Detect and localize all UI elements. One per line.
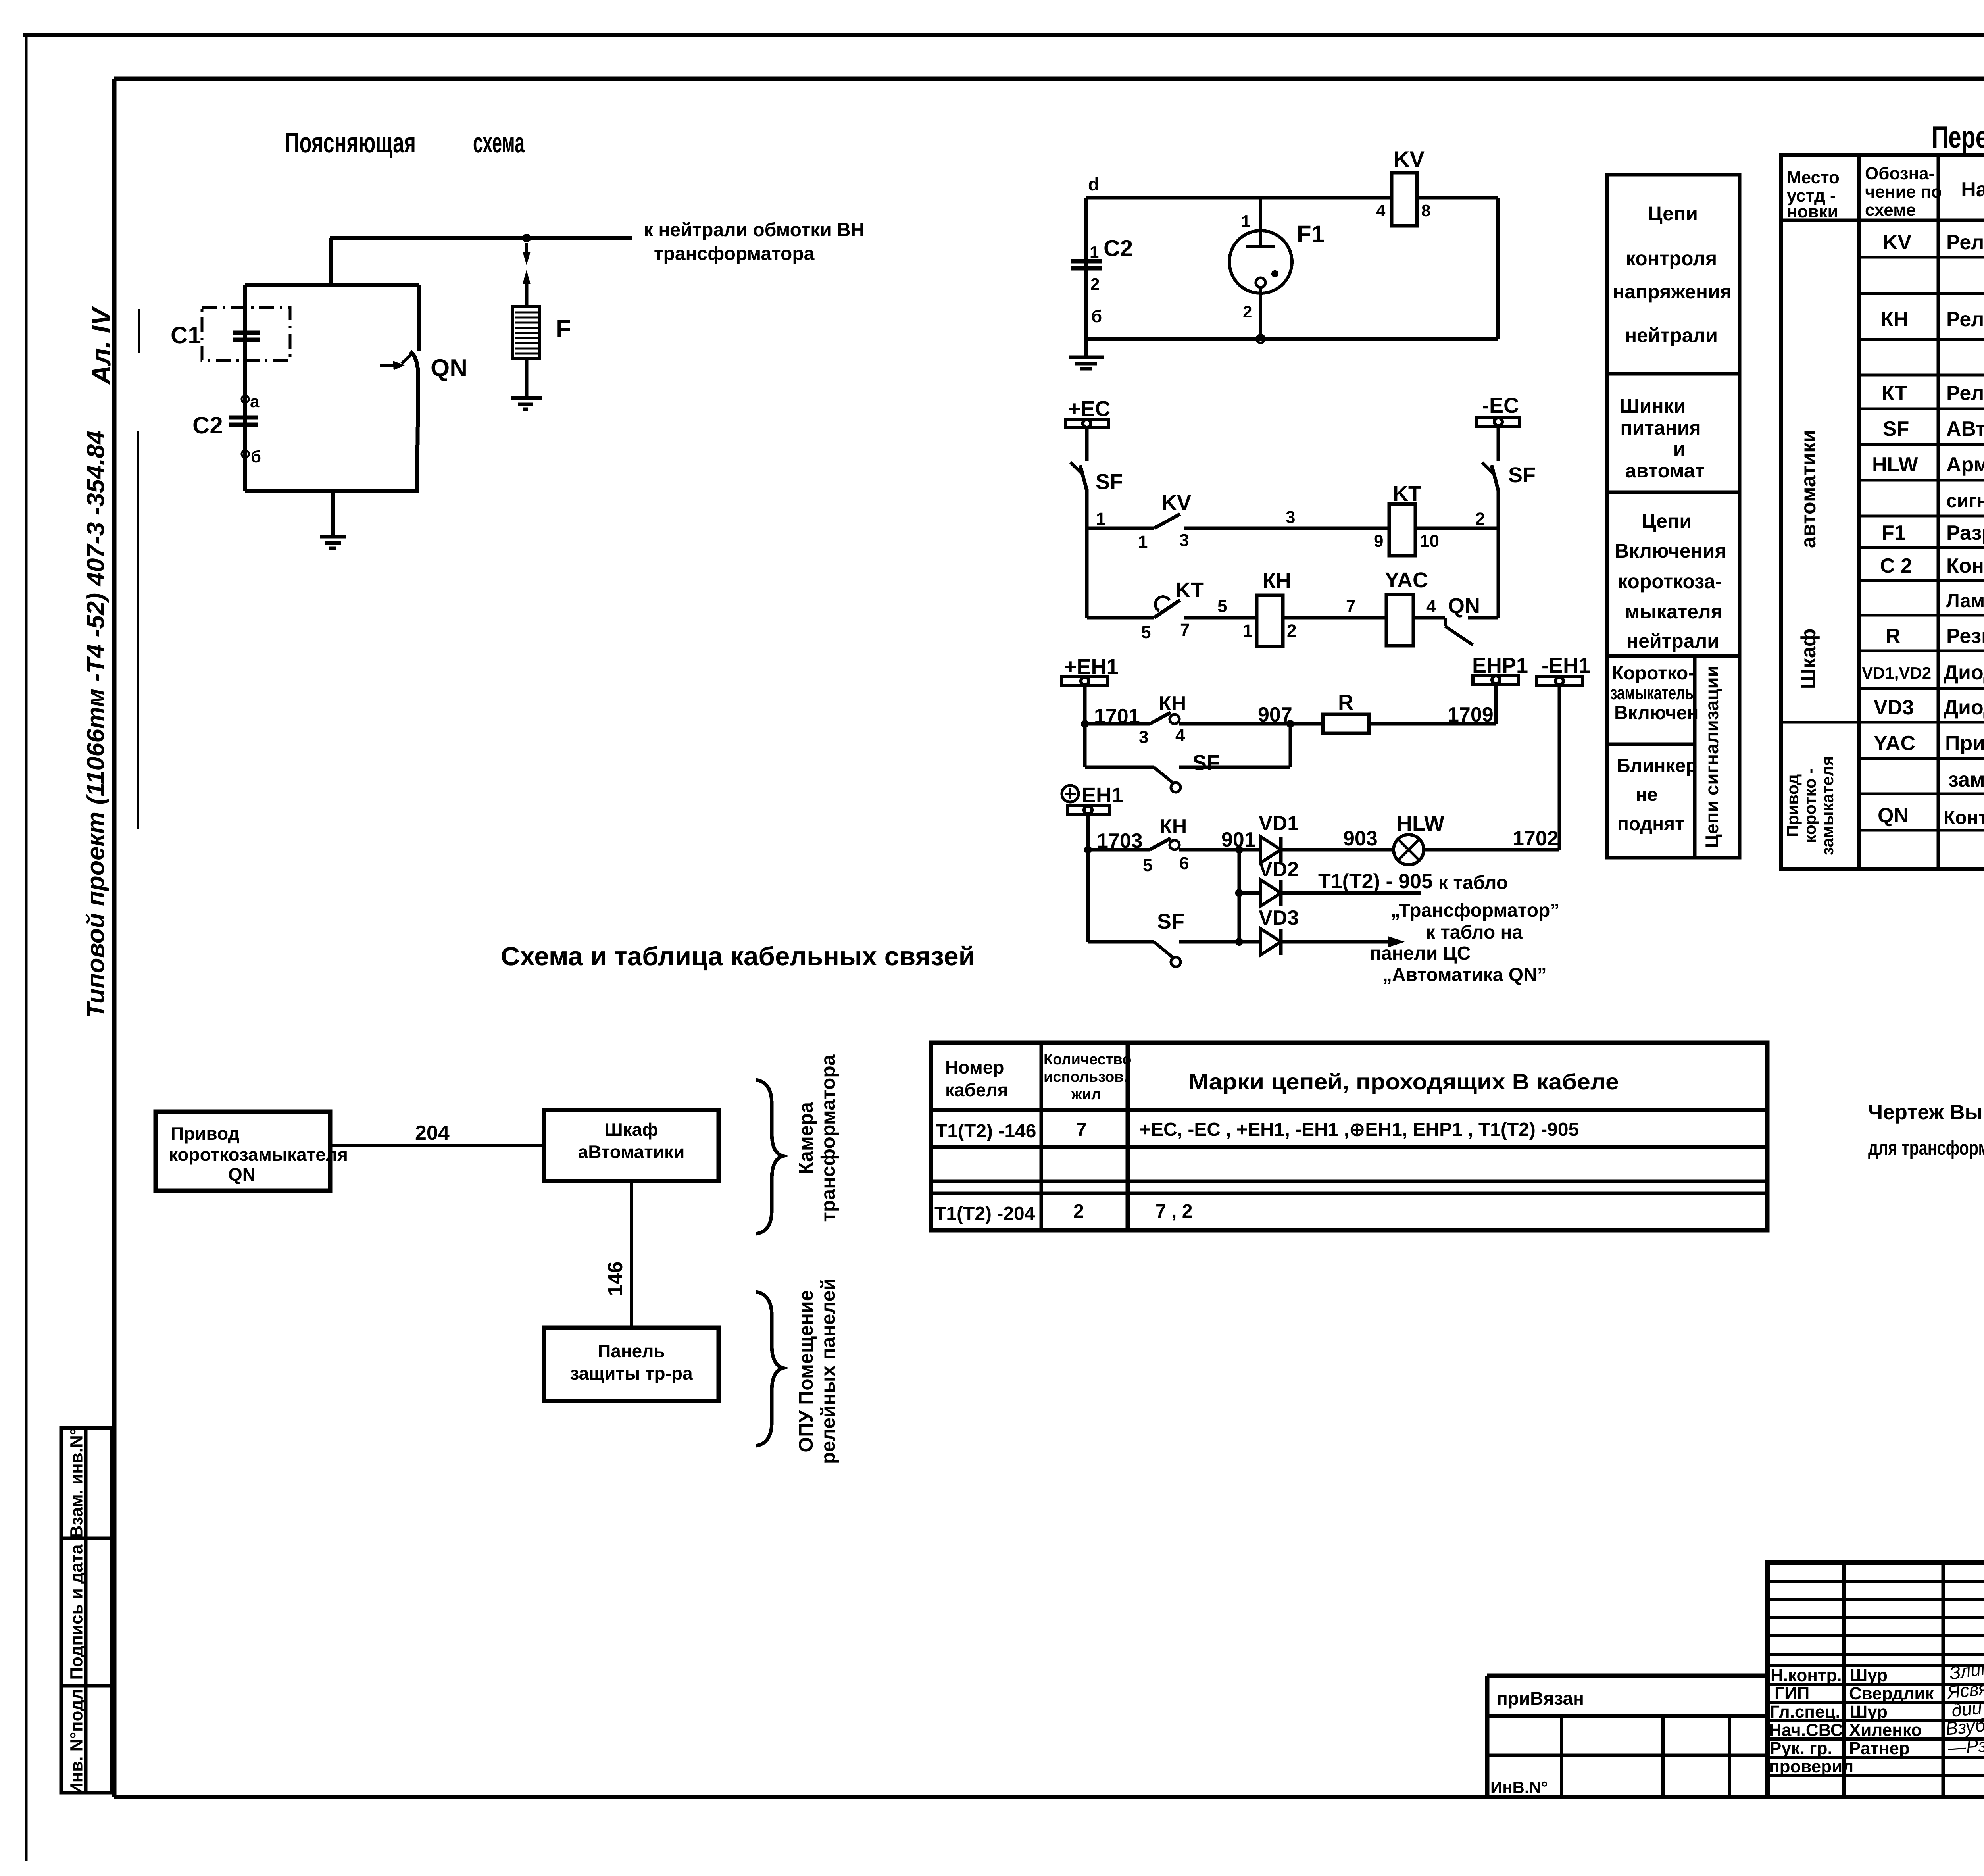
svg-text:автомат: автомат [1625,460,1705,482]
svg-text:а: а [250,392,260,411]
svg-text:Взам. инв.N°: Взам. инв.N° [67,1428,87,1538]
svg-text:контроля: контроля [1626,247,1717,269]
F1 bottom electrode [1256,278,1265,287]
switch QN blade [410,352,418,491]
svg-text:Типовой проект (11066тм -Т4: Типовой проект (11066тм -Т4 -52) 407-3 -… [82,431,110,1018]
capacitor C2 (explanatory) [229,418,258,425]
svg-text:QN: QN [431,354,467,382]
contact KT (time delayed) [1154,600,1180,618]
svg-text:к табло на: к табло на [1426,922,1523,943]
svg-text:1: 1 [1138,532,1148,552]
svg-text:поднят: поднят [1617,814,1684,835]
svg-text:-EC: -EC [1482,394,1519,418]
contact QN signal [1444,618,1447,626]
svg-text:„Автоматика QN”: „Автоматика QN” [1382,964,1547,985]
svg-text:Диод кремниевой: Диод кремниевой [1944,661,1984,684]
svg-text:903: 903 [1343,827,1378,850]
svg-text:R: R [1886,625,1901,648]
svg-text:7: 7 [1180,620,1190,640]
relay coil KH [1257,595,1283,646]
svg-text:4: 4 [1426,596,1436,616]
svg-text:Конденсатор: Конденсатор [1946,554,1984,577]
svg-text:Ал. IV: Ал. IV [86,306,116,385]
svg-text:Инв. N°подл.: Инв. N°подл. [67,1684,87,1795]
box Блинкер не поднят [1617,755,1698,835]
svg-text:VD3: VD3 [1259,906,1299,929]
svg-text:YAC: YAC [1874,732,1915,755]
svg-text:автоматики: автоматики [1797,430,1820,548]
svg-text:КН: КН [1159,692,1186,715]
box Шинки питания и автомат [1620,395,1705,482]
wire up to EHP1 [1494,686,1498,724]
label column frame [1607,175,1740,858]
svg-text:VD2: VD2 [1259,858,1299,881]
wire row3 middle [1179,722,1323,726]
svg-text:КТ: КТ [1882,382,1907,405]
arrester F1 body circle [1229,231,1292,293]
cable row T1(T2)-146 [936,1119,1579,1142]
svg-text:замыкателя: замыкателя [1948,768,1984,791]
box Цепи контроля напряжения нейтрали [1613,202,1732,346]
svg-text:Цепи: Цепи [1648,202,1698,225]
wire from -EC [1497,426,1500,461]
svg-text:HLW: HLW [1872,453,1918,476]
relay coil KV [1392,173,1417,226]
title block outline [1768,1563,1984,1797]
svg-text:C2: C2 [1104,235,1133,261]
cable table headers [945,1051,1131,1103]
svg-text:1: 1 [1243,621,1252,641]
signature table verticals [1842,1563,1846,1797]
border outer left line [25,35,28,1861]
node 901 [1235,846,1243,854]
svg-text:SF: SF [1508,463,1536,487]
wire row2 to YAC [1283,616,1386,620]
signature table row lines [1768,1581,1984,1776]
node VD2 branch [1235,889,1243,897]
svg-text:YAC: YAC [1385,568,1428,592]
wire loop right [1496,198,1500,339]
wire loop bottom [1086,337,1498,341]
diode VD1 [1261,837,1281,863]
main frame bottom [114,1795,1984,1799]
svg-text:7 , 2: 7 , 2 [1155,1201,1192,1222]
svg-text:аВтоматики: аВтоматики [578,1141,685,1162]
svg-text:d: d [1088,174,1099,194]
svg-text:Схема и таблица кабельны: Схема и таблица кабельных связей [501,941,975,971]
svg-text:F1: F1 [1882,521,1906,545]
svg-text:релейных панелей: релейных панелей [817,1278,839,1464]
vertical from node 901 down [1238,850,1241,942]
wire loop bottom [245,489,419,493]
svg-text:+EC: +EC [1068,397,1111,421]
svg-text:7: 7 [1346,596,1355,616]
svg-text:5: 5 [1141,623,1151,642]
switch QN (explanatory): upper stub [417,285,421,351]
bus ⊕EH1 [1062,785,1079,802]
svg-text:Шинки: Шинки [1620,395,1686,417]
svg-text:Реле указательное: Реле указательное [1946,308,1984,331]
wire to transformer neutral [330,236,632,240]
svg-text:ИнВ.N°: ИнВ.N° [1490,1778,1548,1797]
table header texts [1787,164,1942,221]
svg-text:Т1(Т2) -146: Т1(Т2) -146 [936,1121,1036,1142]
svg-text:-EH1: -EH1 [1542,654,1590,677]
svg-text:Номер: Номер [945,1057,1004,1077]
wire row1 middle [1184,527,1392,530]
svg-text:1702: 1702 [1513,827,1559,850]
svg-text:Гл.спец.: Гл.спец. [1770,1702,1840,1722]
wire from +EH1 [1083,686,1087,767]
wire bypass right (row4) [1179,940,1239,944]
junction 907 [1286,720,1294,728]
svg-text:1709: 1709 [1448,703,1494,726]
wire row2 left corner [1087,616,1154,620]
svg-text:C1: C1 [171,322,201,348]
F1 polarity dot [1271,270,1278,277]
lamp HLW [1394,835,1424,865]
svg-text:—Рз: —Рз [1947,1735,1984,1758]
wire from SF right down [1497,489,1500,618]
svg-text:Нач.СВС: Нач.СВС [1769,1720,1843,1740]
svg-text:коротко -: коротко - [1801,768,1819,843]
contact SF aux (row3) [1154,767,1173,783]
wire up to -EH1 [1558,686,1561,850]
svg-text:мыкателя: мыкателя [1625,600,1723,623]
svg-text:SF: SF [1883,418,1909,441]
F1 top electrode [1259,231,1262,246]
signature table texts [1769,1666,1934,1776]
svg-text:Привод коротко -: Привод коротко - [1945,732,1984,755]
wire loop top [1086,196,1498,200]
svg-text:Диод кремниевой: Диод кремниевой [1944,696,1984,719]
svg-text:короткоза-: короткоза- [1618,570,1722,593]
svg-text:к нейтрали обмотки ВН: к нейтрали обмотки ВН [644,219,864,241]
arrester F lower stem [525,359,529,398]
switch QN actuating arrow [380,364,398,367]
svg-text:SF: SF [1157,910,1184,933]
svg-text:замыкатель: замыкатель [1610,683,1694,704]
underline of designation [137,431,139,829]
left extension of title block [1487,1676,1768,1797]
svg-text:VD3: VD3 [1874,696,1914,719]
drive coil YAC [1386,595,1413,646]
svg-text:КН: КН [1159,815,1187,838]
signatures (script) [1945,1655,1984,1758]
wire row1 right [1415,527,1498,530]
svg-text:схеме: схеме [1865,200,1916,220]
wire row2 to KH [1184,616,1257,620]
brace Камера трансформатора [756,1080,783,1234]
svg-text:Лампа сигнальная: Лампа сигнальная [1946,591,1984,612]
svg-text:SF: SF [1096,470,1123,494]
wire row2 to QN [1413,616,1445,620]
svg-text:Привод: Привод [171,1123,240,1144]
svg-text:3: 3 [1179,531,1189,550]
svg-text:VD1: VD1 [1259,812,1299,835]
breaker SF right [1482,462,1493,473]
svg-text:2: 2 [1073,1201,1084,1222]
svg-text:2: 2 [1287,621,1296,641]
svg-text:F: F [556,314,571,343]
ground of KV loop [1069,339,1104,369]
svg-text:Разрядник: Разрядник [1946,521,1984,545]
svg-text:проверил: проверил [1769,1757,1853,1776]
svg-text:Марки цепей, проходящих В ка: Марки цепей, проходящих В кабеле [1188,1069,1619,1094]
svg-text:7: 7 [1076,1119,1087,1140]
svg-text:Включен: Включен [1614,702,1698,723]
wire row4 right [1424,848,1559,852]
svg-text:КН: КН [1263,569,1291,593]
wire row3 left [1085,722,1150,726]
svg-text:5: 5 [1143,856,1152,875]
svg-text:для трансформатора Т2 с уч: для трансформатора Т2 с учетом изменений… [1868,1137,1984,1160]
capacitor C1 [233,333,260,340]
block Привод короткозамыкателя QN [156,1112,330,1191]
wire from ⊕EH1 [1086,814,1090,942]
svg-text:Цепи сигнализации: Цепи сигнализации [1701,666,1722,848]
svg-text:чение по: чение по [1865,182,1942,202]
svg-text:С 2: С 2 [1880,554,1912,577]
svg-text:КН: КН [1881,308,1908,331]
block Панель защиты тр-ра [544,1328,719,1401]
table rows [1862,231,1984,829]
svg-text:HLW: HLW [1397,812,1444,835]
svg-text:SF: SF [1192,751,1220,775]
svg-text:Количество: Количество [1044,1051,1131,1068]
diode VD2 [1261,880,1281,906]
node junction on neutral wire [522,234,531,242]
wire from SF left down [1085,489,1089,618]
svg-text:2: 2 [1243,302,1252,321]
svg-text:4: 4 [1376,201,1386,220]
svg-text:Шур: Шур [1850,1702,1888,1722]
svg-text:Цепи: Цепи [1642,510,1692,532]
main frame top [114,77,1984,81]
svg-text:Подпись и дата: Подпись и дата [67,1544,87,1680]
left margin stamp boxes [61,1428,112,1793]
contact KH 5-6 [1150,838,1171,850]
svg-text:б: б [1091,307,1102,326]
svg-text:3: 3 [1139,727,1148,747]
svg-text:Шкаф: Шкаф [1797,629,1820,689]
wire row1 left [1087,527,1154,530]
svg-text:ОПУ Помещение: ОПУ Помещение [795,1290,817,1452]
svg-text:6: 6 [1179,854,1189,873]
note text [1868,1101,1984,1160]
svg-text:к табло: к табло [1438,872,1508,893]
svg-text:EH1: EH1 [1082,783,1123,807]
svg-text:короткозамыкателя: короткозамыкателя [169,1144,348,1165]
wire row4 to lamp [1281,848,1394,852]
junction 1701 [1081,720,1089,728]
svg-text:Привод: Привод [1783,774,1802,837]
SF bypass of row 4 [1088,940,1154,944]
svg-text:QN: QN [228,1164,256,1185]
svg-text:KT: KT [1175,578,1204,602]
node VD3 branch [1235,938,1243,946]
svg-text:Реле Времени: Реле Времени [1946,382,1984,405]
wire to VD2 [1239,891,1261,895]
svg-text:трансформатора: трансформатора [654,243,815,264]
svg-text:ГИП: ГИП [1774,1684,1809,1703]
capacitor C1 dashed enclosure [202,308,290,360]
svg-text:„Трансформатор”: „Трансформатор” [1391,900,1559,921]
svg-text:Перечень: Перечень [1932,119,1984,154]
svg-text:АВтомат: АВтомат [1946,418,1984,441]
svg-text:трансформатора: трансформатора [817,1054,839,1222]
svg-text:и: и [1673,438,1686,460]
wire loop top [245,283,419,287]
table grid [1781,155,1984,869]
svg-text:Наименование: Наименование [1961,178,1984,201]
disconnect arrows at neutral junction [525,243,528,254]
svg-text:QN: QN [1878,804,1909,827]
resistor R [1323,714,1369,733]
ground of explanatory loop [320,491,346,548]
svg-text:напряжения: напряжения [1613,281,1732,303]
svg-text:VD1,VD2: VD1,VD2 [1862,664,1931,682]
svg-text:10: 10 [1420,531,1439,551]
breaker SF left [1071,462,1082,473]
svg-text:нейтрали: нейтрали [1625,324,1718,346]
brace ОПУ помещение релейных панелей [756,1292,783,1446]
cable table grid [931,1043,1767,1230]
ground of arrester F [511,398,542,409]
svg-text:использов.: использов. [1044,1069,1128,1085]
svg-text:Обозна-: Обозна- [1865,164,1934,183]
arrester F1 upper stem [1259,198,1262,231]
wire to VD3 [1239,940,1261,944]
svg-text:Панель: Панель [598,1341,665,1361]
svg-text:Контакт сигнальный: Контакт сигнальный [1944,807,1984,828]
svg-text:защиты тр-ра: защиты тр-ра [570,1363,693,1383]
svg-text:3: 3 [1286,508,1295,527]
main frame left [112,79,117,1797]
relay coil KT [1389,504,1415,556]
svg-text:Арматура: Арматура [1946,453,1984,476]
svg-text:нейтрали: нейтрали [1626,630,1719,652]
svg-text:Т1(Т2) -204: Т1(Т2) -204 [934,1203,1035,1224]
svg-text:Хиленко: Хиленко [1849,1720,1922,1740]
svg-text:жил: жил [1071,1086,1101,1103]
wire from +EC [1085,428,1089,461]
svg-text:QN: QN [1448,594,1480,618]
svg-text:8: 8 [1421,201,1430,220]
svg-text:T1(T2) - 905: T1(T2) - 905 [1318,870,1433,893]
svg-text:б: б [251,447,261,466]
svg-text:146: 146 [604,1262,627,1296]
svg-text:9: 9 [1374,531,1383,551]
svg-text:панели ЦС: панели ЦС [1370,943,1471,964]
contact KV [1154,514,1180,528]
svg-text:Свердлик: Свердлик [1849,1684,1934,1703]
svg-text:кабеля: кабеля [945,1079,1008,1100]
node б [242,450,249,458]
cable 146 wire [630,1181,633,1328]
svg-text:KT: KT [1393,482,1421,506]
node of F1 on bottom wire [1257,335,1265,343]
svg-text:Чертеж Выполнен для трансфо: Чертеж Выполнен для трансформатора Т1 и … [1868,1101,1984,1124]
SF bypass of row 3 [1085,766,1154,769]
svg-text:1: 1 [1241,212,1250,231]
svg-text:KV: KV [1394,146,1425,171]
block Шкаф автоматики [544,1110,719,1181]
wire from VD3 with arrow [1281,940,1393,944]
svg-text:Место: Место [1787,168,1840,187]
svg-text:F1: F1 [1297,221,1325,247]
svg-text:KV: KV [1883,231,1912,254]
box Короткозамыкатель включен [1610,663,1698,723]
svg-text:R: R [1338,691,1353,714]
svg-text:приВязан: приВязан [1497,1688,1584,1709]
wire row4 left [1088,848,1150,852]
svg-text:2: 2 [1475,509,1485,529]
svg-text:1: 1 [1096,509,1105,529]
node a [242,396,249,403]
wire row4 to node 901 [1179,848,1261,852]
arrester F upper stem [525,283,529,307]
wire from VD2 to table T1(T2)-905 [1281,891,1421,895]
svg-text:Рук. гр.: Рук. гр. [1770,1739,1832,1758]
svg-text:5: 5 [1217,596,1227,616]
cable 204 wire [330,1144,544,1147]
box Цепи включения короткозамыкателя нейтрали [1615,510,1726,652]
border outer top line [23,33,1984,37]
svg-text:+ЕС, -ЕС , +ЕН1, -ЕН1 ,⊕ЕН1, Е: +ЕС, -ЕС , +ЕН1, -ЕН1 ,⊕ЕН1, ЕНР1 , Т1(Т… [1140,1119,1579,1140]
wire bypass right (row3) [1179,766,1290,769]
svg-text:Поясняющая: Поясняющая [285,127,416,159]
svg-text:Камера: Камера [795,1102,817,1174]
svg-text:Шур: Шур [1850,1666,1888,1685]
svg-text:Блинкер: Блинкер [1617,755,1698,776]
wire row3 right [1369,722,1496,726]
contact KH 3-4 [1150,712,1171,724]
svg-text:Шкаф: Шкаф [604,1119,658,1140]
svg-text:Н.контр.: Н.контр. [1771,1666,1842,1685]
svg-text:Реле напряжения: Реле напряжения [1946,231,1984,254]
svg-text:KV: KV [1161,491,1191,515]
svg-text:новки: новки [1787,202,1838,221]
svg-text:Коротко-: Коротко- [1612,663,1694,684]
contact SF aux (row4) [1154,942,1173,957]
diode VD3 [1261,929,1281,955]
cable row T1(T2)-204 [934,1201,1192,1224]
svg-text:1: 1 [1090,243,1099,262]
svg-text:Включения: Включения [1615,540,1726,562]
svg-text:замыкателя: замыкателя [1818,756,1837,855]
wire loop left [1084,198,1088,339]
svg-text:не: не [1636,784,1658,805]
svg-text:204: 204 [415,1122,450,1145]
svg-text:сигнальной лампы: сигнальной лампы [1946,491,1984,512]
wire drop from neutral wire to loop [329,238,333,285]
svg-text:2: 2 [1090,275,1100,293]
svg-text:Резистор: Резистор [1946,625,1984,648]
svg-text:схема: схема [473,127,525,159]
svg-text:питания: питания [1620,417,1701,439]
capacitor C2 [1071,261,1102,268]
wire loop left [243,285,247,491]
svg-text:C2: C2 [192,412,223,439]
arrester F body (hatched) [513,307,540,359]
svg-text:4: 4 [1175,726,1185,745]
svg-text:Ратнер: Ратнер [1849,1739,1910,1758]
junction 1703 [1084,846,1092,854]
